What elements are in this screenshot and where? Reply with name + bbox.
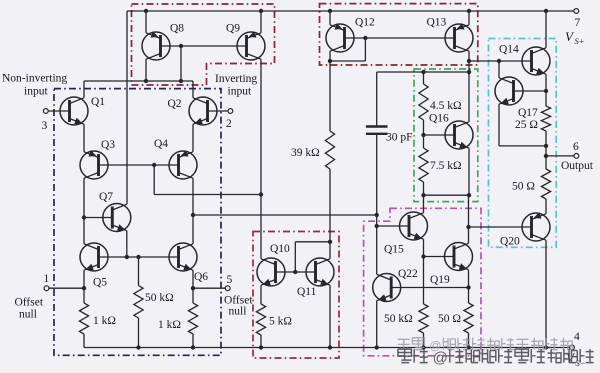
junction: R12 at V- rail: [421, 345, 425, 349]
wire: Q3/Q4 base drop: [153, 165, 155, 195]
wire: Q1 collector riser: [83, 81, 85, 98]
junction: base tie on Q8-Q9 bus: [179, 44, 183, 48]
svg-text:4: 4: [574, 331, 580, 343]
wire: Q19 base lead: [424, 256, 454, 258]
wire: Q6 collector riser: [192, 178, 194, 244]
wire: Q8-Q9 base bus: [161, 45, 247, 47]
terminal pin 1 offset null: [44, 286, 49, 291]
svg-text:Q20: Q20: [500, 236, 520, 248]
label Inverting input: [215, 73, 257, 85]
svg-text:7: 7: [575, 17, 581, 29]
svg-text:5: 5: [227, 274, 233, 286]
svg-text:25 Ω: 25 Ω: [515, 119, 538, 131]
stage box: Q12/Q13 current mirror (dark red dash-dot): [320, 4, 478, 65]
terminal pin 5 offset null: [225, 286, 230, 291]
wire: Q3 collector down to Q5: [83, 178, 85, 244]
wire: R9 to R10 output link: [545, 131, 547, 169]
svg-text:null: null: [19, 309, 37, 321]
terminal pin 4 V S-: [570, 345, 575, 350]
watermark: zhihu id (dark): [398, 349, 594, 366]
wire: R7 4.5k top lead: [423, 72, 425, 84]
terminal pin 3 non-inverting input: [43, 109, 48, 114]
junction: Q11 emitter at V- rail: [328, 345, 332, 349]
junction: Q11 collector tie: [328, 240, 332, 244]
label Q17: [518, 107, 538, 119]
svg-text:Q3: Q3: [101, 139, 115, 151]
terminal pin 2 inverting input: [228, 109, 233, 114]
junction: output tap: [544, 154, 548, 158]
value 7.5 kOhm (R8): [430, 160, 462, 172]
wire: Q20 collector to V- rail: [545, 240, 547, 347]
svg-text:7.5 kΩ: 7.5 kΩ: [430, 160, 462, 172]
watermark: zhihu id (light echo): [398, 338, 572, 353]
label Offset null (pin5): [224, 295, 253, 307]
wire: Q14 emitter to R9: [545, 74, 547, 106]
wire: Q6 emitter to R2: [192, 270, 194, 303]
wire: Q7 base lead: [84, 217, 112, 219]
junction: R5 at V- rail: [259, 345, 263, 349]
wire: Q8 emitter to rail: [145, 11, 147, 33]
svg-text:30 pF: 30 pF: [386, 132, 413, 144]
junction: Q8 emitter at rail: [144, 9, 148, 13]
value 25 Ohm (R9): [515, 119, 538, 131]
wire: Q9 collector down to Q10: [260, 59, 262, 259]
wire: Q12 base tie drop: [364, 38, 366, 61]
wire: R3 top lead: [138, 257, 140, 286]
wire: Q14 base lead: [469, 60, 532, 62]
junction: Q14 base wire on Q13 collector: [467, 59, 471, 63]
transistor Q15: [400, 212, 428, 240]
junction: pin5 tap on Q6 emitter: [191, 286, 195, 290]
junction: Q8/Q9 base tie on bus: [179, 79, 183, 83]
value 50 kOhm (R3): [145, 292, 174, 304]
svg-text:2: 2: [226, 118, 232, 130]
resistor R4 39 kOhm: [325, 131, 334, 169]
label input (inverting): [228, 86, 252, 98]
wire: Q12-Q13 base bus: [345, 37, 455, 39]
svg-text:Q13: Q13: [427, 17, 447, 29]
wire: Q17 emitter to output node: [499, 145, 546, 147]
svg-text:Q5: Q5: [93, 277, 107, 289]
resistor R11 50 Ohm (Q19 emitter): [464, 303, 473, 333]
svg-text:Q9: Q9: [226, 23, 240, 35]
svg-text:Inverting: Inverting: [215, 73, 257, 85]
wire: second-stage input node: [193, 214, 377, 216]
transistor Q13: [445, 23, 473, 52]
label Q22: [398, 268, 418, 280]
stage box: second stage Q15/Q19/Q22 (magenta dash-dot): [364, 208, 481, 355]
label Q5: [93, 277, 107, 289]
terminal pin 6 output: [574, 154, 579, 159]
transistor Q1: [60, 97, 88, 125]
wire: pin3 lead to Q1 base: [48, 110, 69, 112]
svg-text:Q15: Q15: [384, 244, 404, 256]
transistor Q2: [189, 97, 217, 125]
transistor Q8: [142, 31, 170, 60]
junction: Q16 base tap: [421, 133, 425, 137]
wire: Cc top to Q13 collector node: [377, 71, 469, 73]
svg-text:null: null: [229, 306, 247, 318]
resistor R7 4.5 kOhm: [419, 84, 428, 120]
wire: Q17 base lead: [514, 90, 547, 92]
wire: VBE multiplier bottom node: [424, 194, 470, 196]
wire: Q22 emitter drop: [376, 301, 378, 348]
value 50 Ohm (R11): [438, 313, 461, 325]
wire: Cc top lead: [376, 72, 378, 127]
label Q11: [297, 286, 317, 298]
junction: Cc wire on Q13 collector: [467, 70, 471, 74]
label Q3: [101, 139, 115, 151]
stage box: Q8/Q9 current mirror (dark red dash-dot): [132, 4, 275, 85]
label Q16: [429, 113, 449, 125]
wire: V- bottom rail: [84, 347, 570, 349]
wire: Q10-Q11 base bus: [276, 271, 316, 273]
wire: Q19 emitter drop: [468, 270, 470, 303]
label Q10: [270, 243, 290, 255]
svg-text:Q22: Q22: [398, 268, 418, 280]
wire: Q15 base lead: [377, 225, 408, 227]
label null (pin1): [19, 309, 37, 321]
wire: R3 bottom lead: [138, 318, 140, 348]
svg-text:Q14: Q14: [499, 44, 519, 56]
transistor Q6: [169, 243, 197, 271]
svg-text:Q16: Q16: [429, 113, 449, 125]
wire: R1 bottom lead: [83, 334, 85, 348]
label Q2: [168, 98, 182, 110]
wire: Q11 emitter drop: [329, 285, 331, 347]
wire: Q12 emitter to rail: [329, 11, 331, 25]
junction: Q13 emitter at rail: [467, 9, 471, 13]
label Q4: [154, 138, 168, 150]
svg-text:input: input: [228, 86, 252, 98]
svg-text:Q11: Q11: [297, 286, 317, 298]
wire: Q8 collector down: [145, 59, 147, 81]
svg-text:Q8: Q8: [170, 23, 184, 35]
label Q8: [170, 23, 184, 35]
svg-text:Q12: Q12: [355, 17, 375, 29]
svg-text:Q19: Q19: [430, 274, 450, 286]
wire: Q3/Q4 base to Q9 collector: [154, 194, 261, 196]
stage box: Q16 VBE multiplier (green dash-dot): [414, 69, 478, 202]
wire: R11 bottom lead: [468, 333, 470, 348]
label Non-inverting input: [2, 73, 67, 85]
transistor Q22: [373, 274, 401, 302]
label Q20: [500, 236, 520, 248]
wire: Q13 emitter to rail: [468, 11, 470, 25]
label Q7: [99, 191, 113, 203]
value 1 kOhm (R1): [93, 315, 116, 327]
junction: Q16 emitter node: [467, 193, 471, 197]
junction: Q10/Q11 base bus tap: [293, 270, 297, 274]
junction: Q9 emitter at rail: [259, 9, 263, 13]
wire: Q2 collector riser: [192, 81, 194, 98]
junction: Q20 base tap on Q19 collector: [466, 225, 470, 229]
svg-text:input: input: [24, 86, 48, 98]
wire: base tie to Q12 collector: [330, 60, 365, 62]
value 4.5 kOhm (R7): [430, 100, 462, 112]
svg-text:1: 1: [44, 273, 50, 285]
pin number 5: [227, 274, 233, 286]
junction: Q14 collector at rail: [544, 9, 548, 13]
svg-text:Q7: Q7: [99, 191, 113, 203]
junction: R11 at V- rail: [466, 345, 470, 349]
wire: R5 bottom lead: [260, 335, 262, 348]
junction: R2 at V- rail: [191, 345, 195, 349]
label Offset null (pin1): [15, 297, 44, 309]
wire: R4 39k top lead: [329, 51, 331, 131]
wire: Q14 collector to rail: [545, 11, 547, 48]
junction: R3 top on Q5/Q6 bus: [136, 255, 140, 259]
pin number 2: [226, 118, 232, 130]
transistor Q20: [522, 212, 550, 241]
terminal pin 7 V S+: [574, 9, 579, 14]
transistor Q16: [445, 121, 473, 149]
svg-text:3: 3: [42, 120, 48, 132]
stage box: input stage Q1-Q7 (navy dash-dot): [54, 89, 221, 356]
wire: Q15 collector riser: [423, 195, 425, 213]
label Q1: [91, 96, 105, 108]
wire: R4 39k bottom lead: [329, 169, 331, 242]
junction: Q12/Q13 base bus tap: [363, 36, 367, 40]
label input (non-inverting): [24, 86, 48, 98]
wire: Q22 collector riser: [376, 226, 378, 274]
value 39 kOhm (R4): [291, 147, 320, 159]
svg-text:Q10: Q10: [270, 243, 290, 255]
pin number 7: [575, 17, 581, 29]
junction: R7 top tap: [421, 70, 425, 74]
svg-text:1 kΩ: 1 kΩ: [93, 315, 116, 327]
svg-text:Q6: Q6: [194, 271, 208, 283]
resistor R12 50 kOhm (Q22): [419, 304, 428, 333]
wire: Q3-Q4 base bus: [99, 164, 179, 166]
junction: Q3/Q4 base bus tap: [152, 163, 156, 167]
transistor Q14: [522, 47, 550, 75]
junction: node wire to Cc: [375, 213, 379, 217]
wire: Q8/Q9 base tie drop: [180, 46, 182, 81]
resistor R8 7.5 kOhm: [419, 148, 428, 182]
svg-text:Q2: Q2: [168, 98, 182, 110]
wire: Q19 collector riser: [468, 195, 470, 243]
junction: Q7 base tap: [82, 215, 86, 219]
value 1 kOhm (R2): [158, 319, 181, 331]
label Q15: [384, 244, 404, 256]
svg-text:50 kΩ: 50 kΩ: [384, 313, 413, 325]
value 50 Ohm (R10): [512, 181, 535, 193]
wire: R8 7.5k bottom lead: [423, 182, 425, 195]
svg-text:@: @: [433, 350, 448, 367]
transistor Q11: [306, 258, 334, 286]
resistor R5 5 kOhm (Q10 emitter): [256, 304, 265, 335]
wire: pin2 lead to Q2 base: [208, 110, 229, 112]
svg-text:Q17: Q17: [518, 107, 538, 119]
transistor Q19: [445, 243, 473, 271]
wire: R7/R8 mid lead: [423, 120, 425, 148]
svg-text:Output: Output: [561, 160, 594, 172]
wire: Q5 emitter to R1: [83, 270, 85, 303]
transistor Q4: [169, 150, 197, 179]
junction: Q20 collector at V- rail: [544, 345, 548, 349]
wire: Q5-Q6 base bus: [99, 256, 179, 258]
junction: pin1 tap on Q5 emitter: [82, 286, 86, 290]
wire: Q22 base lead: [392, 287, 469, 289]
svg-text:Non-inverting: Non-inverting: [2, 73, 67, 85]
svg-text:50 kΩ: 50 kΩ: [145, 292, 174, 304]
svg-text:S+: S+: [575, 36, 585, 46]
wire: R10 to Q20 emitter: [545, 199, 547, 214]
transistor Q17: [495, 77, 523, 105]
wire: Q20 base lead: [469, 226, 532, 228]
pin number 3: [42, 120, 48, 132]
wire: Cc bottom lead: [376, 134, 378, 215]
wire: Q9 emitter to rail: [260, 11, 262, 33]
wire: Q15 emitter drop: [423, 239, 425, 256]
resistor R9 25 Ohm (Q14 emitter): [541, 106, 550, 131]
value 50 kOhm (R12): [384, 313, 413, 325]
transistor Q3: [80, 150, 108, 179]
wire: Q16 base lead: [424, 134, 455, 136]
wire: R2 bottom lead: [192, 334, 194, 348]
junction: tie on Q12 collector: [328, 59, 332, 63]
pin number 4: [574, 331, 580, 343]
wire: Q7 collector riser to V+ rail: [126, 11, 128, 204]
svg-text:Q1: Q1: [91, 96, 105, 108]
label Q19: [430, 274, 450, 286]
resistor R3 50 kOhm (Q7 emitter): [134, 286, 143, 319]
wire: Q11 collector riser: [329, 242, 331, 259]
svg-text:5 kΩ: 5 kΩ: [269, 316, 292, 328]
svg-text:1 kΩ: 1 kΩ: [158, 319, 181, 331]
junction: Q22 base on Q19 emitter: [466, 285, 470, 289]
pin number 6: [573, 141, 579, 153]
capacitor Cc 30 pF: [366, 127, 388, 134]
junction: R8 bottom node: [421, 193, 425, 197]
wire: pin1 offset-null lead: [49, 287, 84, 289]
label null (pin5): [229, 306, 247, 318]
transistor Q9: [237, 31, 265, 60]
wire: Q10 emitter to R5: [260, 285, 262, 304]
stage box: Q10/Q11 bias (crimson dash-dot): [253, 232, 339, 359]
junction: Q17 collector on Q14 base wire: [497, 59, 501, 63]
svg-text:4.5 kΩ: 4.5 kΩ: [430, 100, 462, 112]
label Q13: [427, 17, 447, 29]
junction: Q9 collector node: [259, 192, 263, 196]
transistor Q12: [326, 23, 354, 52]
junction: Q22 emitter at V- rail: [375, 345, 379, 349]
net label V S+: [565, 29, 585, 46]
svg-text:50 Ω: 50 Ω: [512, 181, 535, 193]
label Q9: [226, 23, 240, 35]
label Q6: [194, 271, 208, 283]
svg-text:Q4: Q4: [154, 138, 168, 150]
stage box: output stage Q14/Q17/Q20 (cyan dash-dot): [489, 39, 557, 248]
wire: R12 50k top lead: [423, 257, 425, 305]
wire: R12 bottom lead: [423, 333, 425, 348]
wire: Q10/Q11 base tie riser: [294, 242, 296, 272]
junction: Q17 base on Q14 emitter: [544, 89, 548, 93]
label Q14: [499, 44, 519, 56]
resistor R10 50 Ohm (Q20 emitter): [541, 169, 550, 199]
wire: Q1/Q2 collector bus: [84, 80, 193, 82]
svg-text:50 Ω: 50 Ω: [438, 313, 461, 325]
label Output: [561, 160, 594, 172]
wire: Q2 emitter to Q4 emitter: [192, 124, 194, 152]
junction: Q12 emitter at rail: [328, 9, 332, 13]
pin number 1: [44, 273, 50, 285]
junction: Q15 base node: [375, 224, 379, 228]
transistor Q10: [257, 258, 285, 286]
net label V S-: [566, 350, 586, 368]
wire: Q7 emitter drop: [126, 231, 128, 257]
transistor Q7: [103, 204, 131, 232]
resistor R2 1 kOhm (Q6 emitter): [188, 303, 197, 334]
svg-text:39 kΩ: 39 kΩ: [291, 147, 320, 159]
junction: second stage tap on Q6 collector: [191, 213, 195, 217]
wire: Q16 emitter drop: [468, 148, 470, 195]
junction: Q17 emitter at output: [544, 144, 548, 148]
wire: Q17 emitter drop: [498, 104, 500, 146]
value 5 kOhm (R5): [269, 316, 292, 328]
value 30 pF (Cc): [386, 132, 413, 144]
wire: base tie to Q11 collector: [295, 241, 330, 243]
svg-text:Offset: Offset: [15, 297, 44, 309]
label Q12: [355, 17, 375, 29]
wire: Q13 collector chain to Q16: [468, 51, 470, 122]
wire: Q1 emitter to Q3 emitter: [83, 124, 85, 152]
junction: R3 at V- rail: [136, 345, 140, 349]
junction: Q7 emitter on Q5/Q6 bus: [125, 255, 129, 259]
junction: Q15 emitter / Q19 base: [421, 254, 425, 258]
wire: pin5 offset-null lead: [193, 287, 225, 289]
junction: Q8 collector on bus: [144, 79, 148, 83]
svg-text:6: 6: [573, 141, 579, 153]
wire: Q15 base drop: [376, 215, 378, 226]
wire: Q17 collector riser: [498, 61, 500, 78]
wire: V+ top rail: [127, 10, 574, 12]
resistor R1 1 kOhm (Q5 emitter): [79, 303, 88, 334]
wire: output lead to pin6: [546, 155, 574, 157]
transistor Q5: [80, 243, 108, 271]
